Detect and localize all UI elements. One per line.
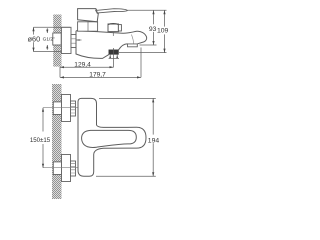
- top inlet pipe behind wall (plan view): [53, 102, 61, 115]
- leader arrow at body inlet (side view): [76, 39, 81, 41]
- lever joint detail (side view): [95, 10, 99, 14]
- label 194: [147, 135, 160, 144]
- lever handle seen from above (plan view): [82, 130, 137, 147]
- wall hatch (plan view): [52, 84, 62, 199]
- dimension 109: bottom extension line: [119, 52, 167, 54]
- dimension 179,7: [60, 76, 141, 78]
- dimension 150±15: bottom arrow segment: [42, 144, 44, 168]
- cartridge collar (side view): [78, 22, 98, 31]
- dimension 93: dimension line: [153, 10, 155, 45]
- faucet body and spout outline (side view): [76, 31, 109, 59]
- svg-text:G1/2”: G1/2”: [43, 37, 55, 43]
- datum extension at wall face (side view): [59, 67, 61, 78]
- bottom union nut (plan view): [71, 161, 76, 176]
- svg-text:93: 93: [149, 26, 157, 33]
- extension at hose outlet centre: [113, 48, 115, 67]
- shower hose outlet, dark (side view): [109, 50, 119, 55]
- hose nipple below outlet (side view): [109, 54, 119, 58]
- bottom escutcheon (plan view): [62, 155, 71, 182]
- small dimension arrows G1/2: [46, 28, 48, 49]
- diverter knob on spout (side view): [108, 24, 118, 32]
- escutcheon ø60 (side view): [61, 27, 71, 53]
- dimension 129,4: [60, 66, 114, 68]
- dimension 93: extension line at spout bottom: [140, 44, 157, 46]
- top escutcheon (plan view): [62, 95, 71, 122]
- wall hatch (side view): [53, 15, 61, 67]
- dimension 150±15: top arrow segment: [42, 108, 44, 132]
- spout seam (side view): [132, 35, 134, 44]
- top inlet centreline: [43, 107, 88, 109]
- union nut (side view): [71, 35, 76, 48]
- svg-text:179,7: 179,7: [89, 71, 106, 78]
- extension at spout tip: [140, 48, 142, 78]
- aerator at spout end (side view): [128, 44, 138, 47]
- dimension 109: dimension line: [164, 10, 166, 52]
- handle base (side view): [78, 9, 99, 22]
- svg-text:109: 109: [157, 28, 169, 35]
- knob centerline tick: [112, 32, 114, 36]
- dimension ø60: dimension line with arrows: [33, 27, 35, 51]
- top union nut (plan view): [71, 101, 76, 116]
- dimension ø60: extension lines: [34, 27, 71, 51]
- svg-text:194: 194: [148, 137, 160, 144]
- dimension 109: top extension line: [128, 9, 167, 11]
- svg-text:ø60: ø60: [28, 34, 41, 43]
- bottom inlet centreline: [43, 167, 88, 169]
- svg-text:150±15: 150±15: [30, 137, 51, 144]
- dimension 194: extension lines: [96, 98, 156, 176]
- dimension 194: dimension line: [152, 98, 154, 176]
- label ø60: [27, 35, 43, 43]
- inlet pipe behind wall (side view): [53, 33, 61, 45]
- bottom inlet pipe behind wall (plan view): [53, 162, 61, 175]
- faucet outline (plan view): body, spout tongue: [78, 98, 146, 176]
- lever arm (side view): [96, 9, 127, 13]
- svg-text:129,4: 129,4: [74, 62, 91, 69]
